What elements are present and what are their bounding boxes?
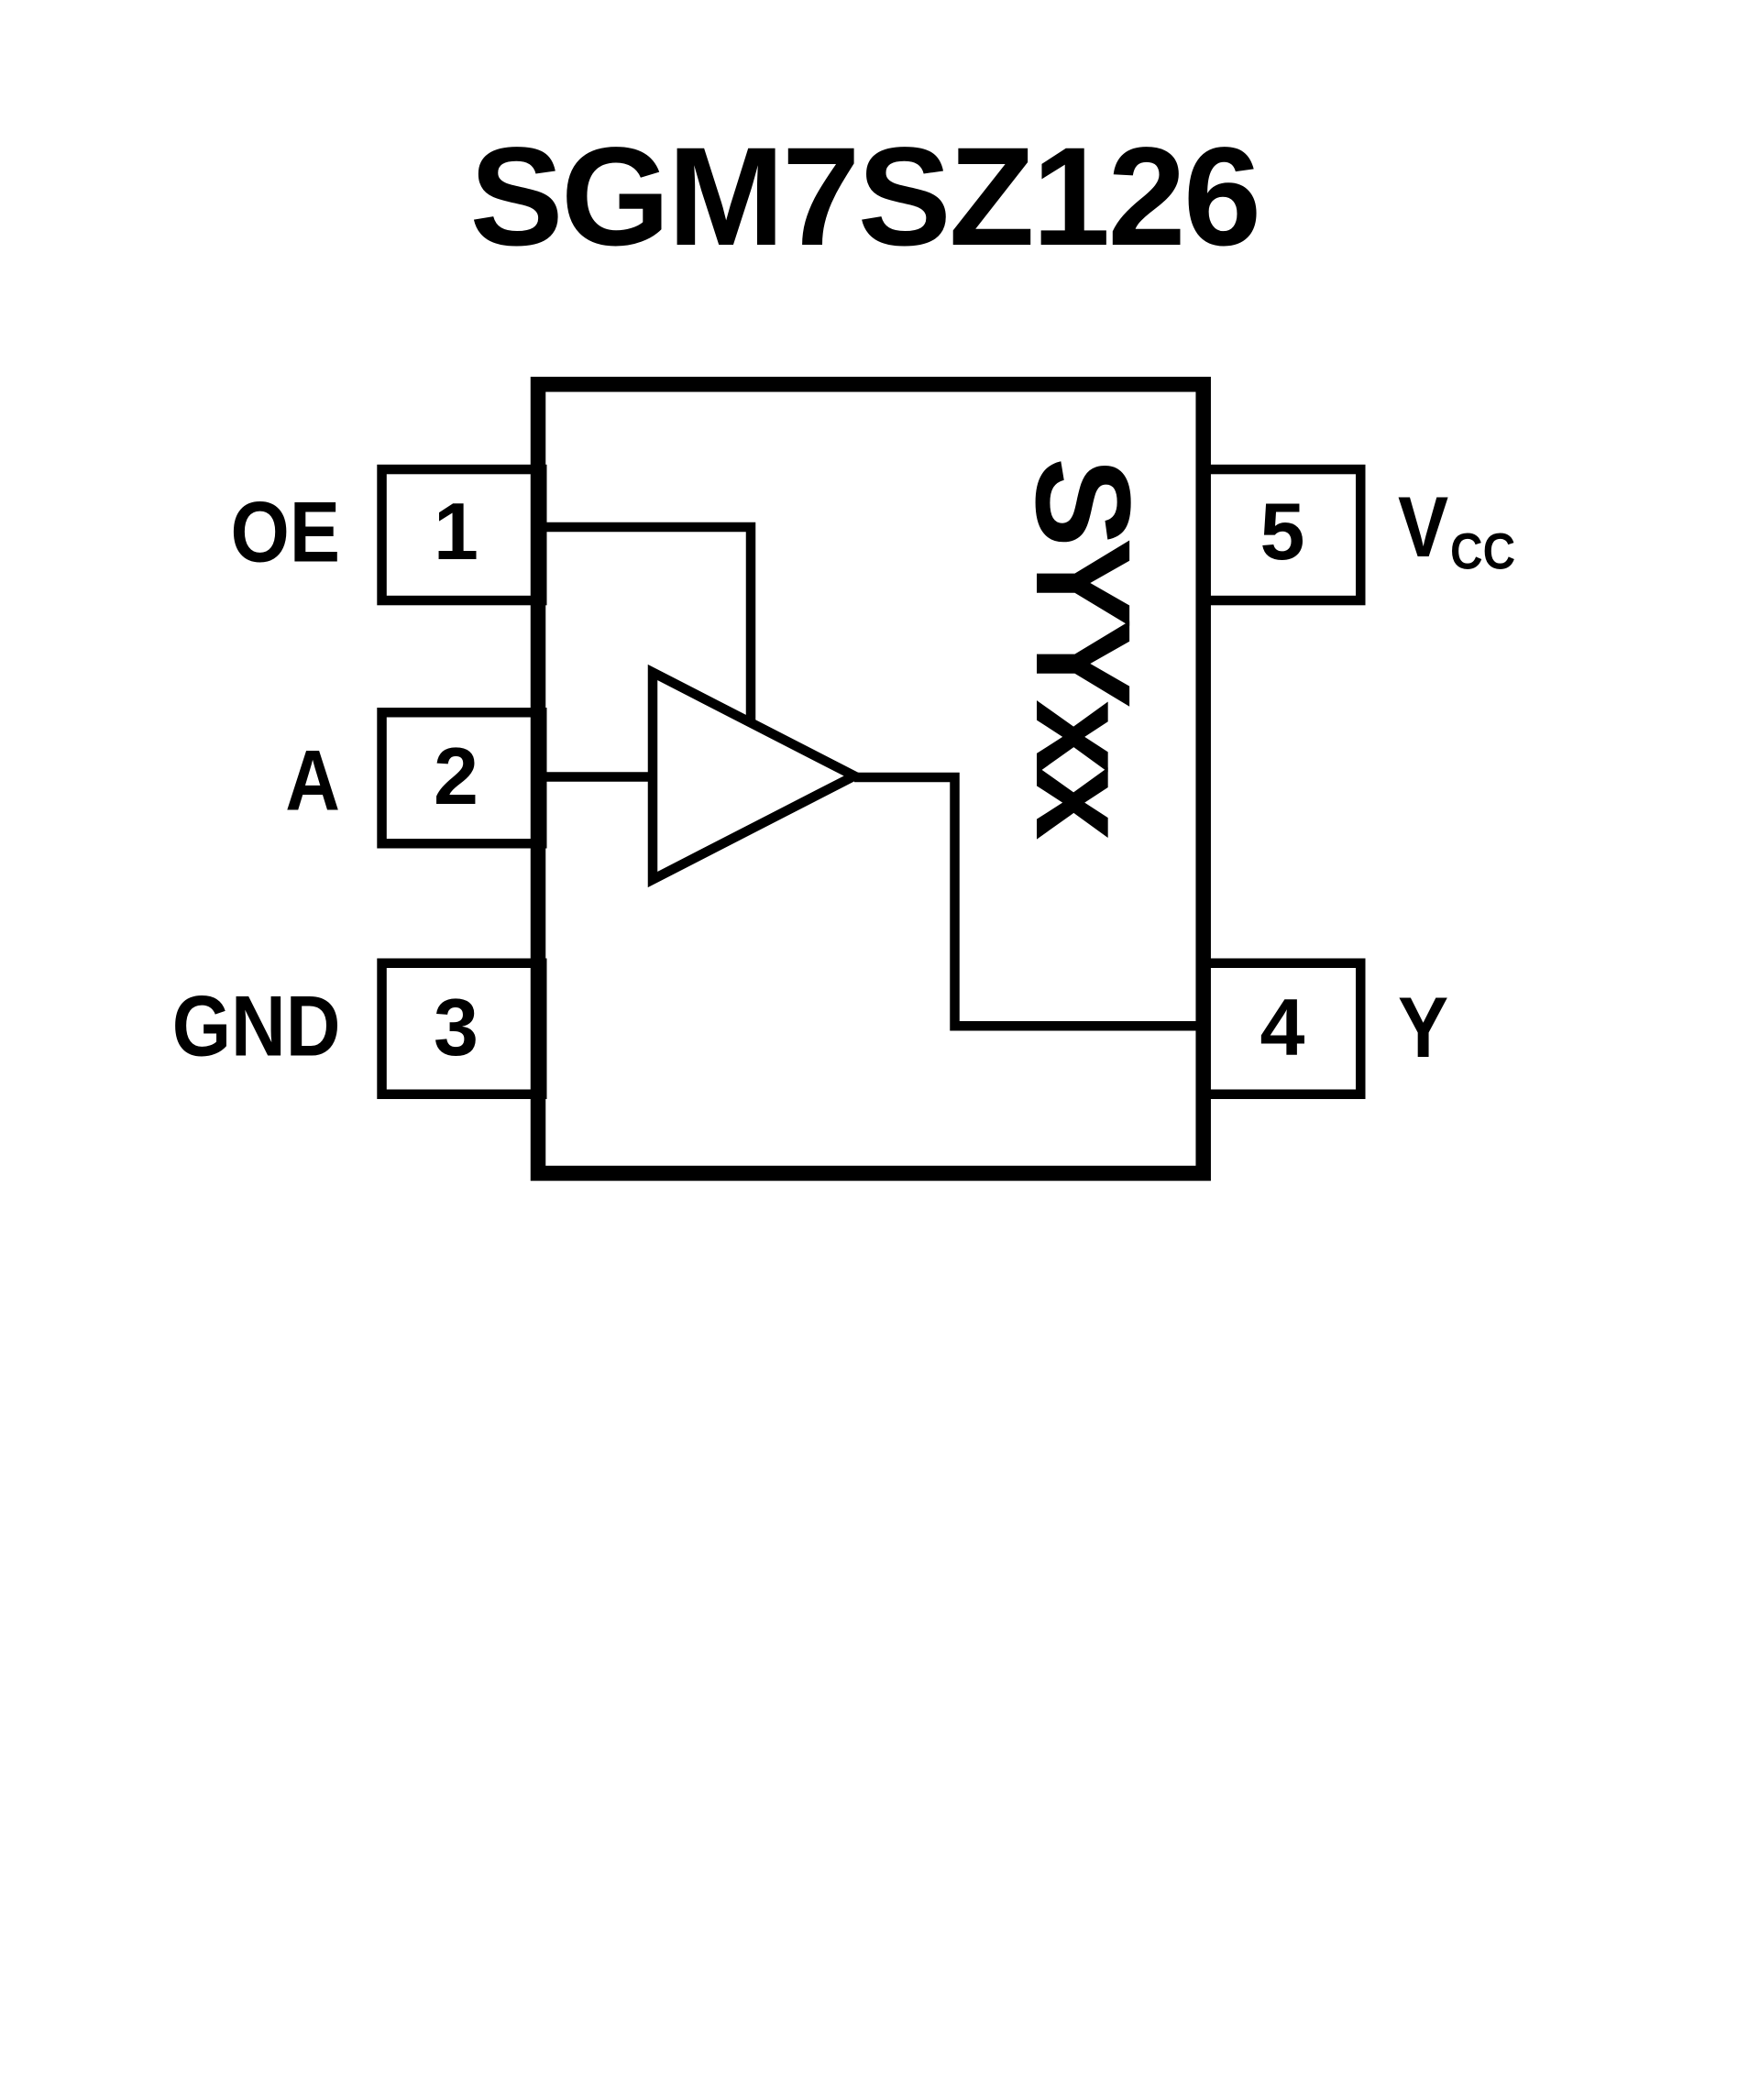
svg-text:5: 5 <box>1260 486 1305 577</box>
svg-text:CC: CC <box>1450 523 1515 581</box>
svg-text:GND: GND <box>172 978 341 1074</box>
svg-text:2: 2 <box>434 731 478 821</box>
svg-text:1: 1 <box>434 486 478 577</box>
svg-text:A: A <box>285 732 340 829</box>
svg-text:4: 4 <box>1260 982 1305 1072</box>
svg-text:3: 3 <box>434 982 478 1072</box>
svg-text:SGM7SZ126: SGM7SZ126 <box>470 118 1259 275</box>
svg-text:Y: Y <box>1398 979 1448 1075</box>
svg-text:V: V <box>1398 478 1448 575</box>
svg-text:SYYxx: SYYxx <box>1007 457 1158 840</box>
svg-text:OE: OE <box>231 484 340 580</box>
